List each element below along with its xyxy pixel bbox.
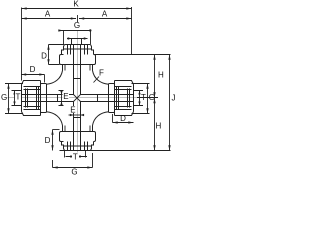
- svg-text:T: T: [73, 153, 78, 162]
- top port nut face: [65, 44, 91, 46]
- top tube end: [74, 78, 81, 80]
- dimension T bottom: [66, 156, 88, 158]
- svg-text:H: H: [156, 122, 162, 131]
- dimension tube stub top: [67, 38, 88, 40]
- left port ferrule lines: [26, 87, 39, 110]
- dimension H top: [154, 55, 156, 98]
- wire: center right ext line: [137, 97, 158, 99]
- svg-text:H: H: [158, 71, 164, 80]
- bottom port inner boss lines: [65, 126, 90, 132]
- svg-text:K: K: [73, 0, 79, 9]
- svg-text:G: G: [71, 168, 77, 177]
- top port internal line: [64, 48, 92, 50]
- bottom port face + ext line to J: [60, 150, 171, 152]
- dimension G right: [147, 84, 149, 114]
- vertical bore lines: [74, 45, 81, 151]
- top port boss sides: [63, 65, 93, 71]
- dimension H bottom: [154, 98, 156, 151]
- dimension A right: [79, 18, 132, 20]
- svg-text:D: D: [120, 114, 126, 123]
- dimension G left: [8, 84, 10, 114]
- wire: F leader: [94, 77, 100, 83]
- dimension D left arm: [21, 74, 45, 76]
- right port bore lines: [81, 95, 134, 102]
- dimension K: [22, 8, 132, 10]
- wire: K extension left: [21, 8, 23, 81]
- bottom port hex lines: [68, 142, 88, 151]
- svg-text:G: G: [1, 93, 7, 102]
- left port nut face: [21, 85, 23, 112]
- bell top-right: [93, 71, 109, 85]
- svg-text:E: E: [70, 105, 75, 114]
- left tube end: [57, 95, 59, 102]
- svg-text:T: T: [16, 93, 21, 102]
- right port collar: [109, 81, 115, 116]
- wire: top right ext line: [95, 54, 171, 56]
- wire: G top ext lines: [64, 31, 91, 45]
- left port collar: [41, 81, 47, 116]
- dimension D bottom port: [52, 130, 54, 151]
- dimension D right arm: [113, 122, 134, 124]
- dimension E lower: [70, 106, 76, 113]
- node: bore crossing X: [74, 95, 81, 102]
- centerline horizontal: [3, 97, 158, 99]
- left port nut outline: [22, 81, 41, 116]
- left port bore lines: [22, 95, 74, 102]
- svg-text:D: D: [30, 65, 36, 74]
- right port nut face: [133, 85, 135, 112]
- left port hex lines: [24, 87, 41, 110]
- node: A center tick: [77, 15, 79, 23]
- svg-text:A: A: [102, 10, 108, 19]
- svg-text:D: D: [45, 136, 51, 145]
- bell bottom-right: [93, 112, 109, 126]
- svg-text:J: J: [172, 94, 176, 103]
- wire: K extension right: [131, 7, 133, 55]
- right port counterbore lines: [134, 91, 144, 106]
- wire: T bottom ext: [65, 151, 86, 158]
- dimension D top port: [48, 45, 50, 65]
- left port counterbore lines: [12, 91, 22, 106]
- dimension A left: [22, 18, 77, 20]
- bottom tube end: [74, 117, 81, 119]
- svg-text:E: E: [63, 92, 68, 101]
- bottom port internal line: [64, 145, 92, 147]
- dimension G top: [60, 30, 91, 32]
- dimension J: [169, 55, 171, 151]
- bell top-left: [47, 71, 63, 85]
- right port hex lines: [115, 87, 132, 110]
- top port nut flange: [60, 55, 96, 65]
- svg-text:G: G: [74, 21, 80, 30]
- right tube end: [97, 95, 99, 102]
- tube stub top port: [72, 39, 82, 45]
- bottom port boss sides: [63, 126, 93, 132]
- bell bottom-left: [47, 112, 63, 126]
- svg-text:A: A: [45, 10, 51, 19]
- right port ferrule lines: [117, 87, 130, 110]
- top port hex lines: [68, 45, 88, 55]
- bottom port flange: [60, 132, 96, 142]
- centerline vertical: [77, 30, 79, 160]
- top port nut sides: [62, 45, 94, 55]
- svg-text:F: F: [99, 69, 104, 78]
- dimension T left: [14, 91, 16, 106]
- bottom port nut sides: [62, 142, 94, 151]
- top port inner boss lines: [65, 65, 90, 71]
- svg-text:D: D: [41, 52, 47, 61]
- dimension E center: [63, 93, 70, 100]
- dimension G bottom: [53, 167, 93, 169]
- right port nut outline: [115, 81, 134, 116]
- dimension T right: [139, 91, 141, 106]
